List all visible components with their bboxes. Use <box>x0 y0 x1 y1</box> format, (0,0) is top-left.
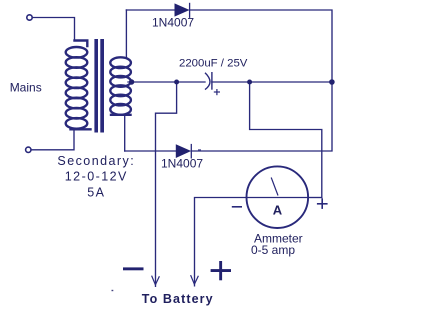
svg-text:Secondary:: Secondary: <box>57 154 135 168</box>
wire top rail to D1 <box>126 9 175 11</box>
transformer T1 core <box>94 39 104 133</box>
symbol battery minus <box>123 267 144 270</box>
transformer T1 secondary winding <box>110 57 131 115</box>
svg-text:0-5 amp: 0-5 amp <box>251 243 295 257</box>
wire ammeter minus lead to battery plus arrow <box>195 198 247 286</box>
transformer T1 primary winding <box>66 41 91 130</box>
label Secondary: 12-0-12V 5A <box>57 154 135 199</box>
wire mains bottom to primary <box>31 131 74 150</box>
symbol battery plus <box>211 261 231 280</box>
wire negative branch from node down and left <box>156 82 177 286</box>
capacitor C1 2200uF/25V <box>205 72 220 95</box>
wire secondary bottom to D2 row <box>124 115 126 151</box>
svg-text:1N4007: 1N4007 <box>152 16 194 30</box>
svg-text:12-0-12V: 12-0-12V <box>65 170 128 184</box>
label ammeter minus polarity <box>232 206 242 208</box>
wire center tap to capacitor <box>128 81 205 83</box>
label ammeter plus polarity <box>317 198 328 209</box>
svg-text:2200uF / 25V: 2200uF / 25V <box>179 57 248 69</box>
node positive branch junction <box>247 80 252 85</box>
mains terminal top <box>27 15 32 20</box>
wire D2 row left segment <box>125 150 177 152</box>
diode D1 1N4007 <box>175 3 190 18</box>
wire capacitor plus plate to node <box>212 81 332 83</box>
node center tap junction <box>129 79 134 84</box>
stray dot mark <box>112 290 114 291</box>
svg-text:A: A <box>273 203 283 218</box>
svg-text:To Battery: To Battery <box>142 292 214 306</box>
svg-text:5A: 5A <box>87 185 105 199</box>
wire positive branch node down right to ammeter plus <box>250 82 322 198</box>
diode D2 1N4007 <box>176 144 201 159</box>
output arrow negative to battery <box>152 276 160 285</box>
svg-text:Mains: Mains <box>10 80 42 94</box>
wire secondary top to top rail <box>125 10 127 58</box>
wire D2 cathode to right rail <box>191 82 332 151</box>
mains terminal bottom <box>26 147 31 152</box>
output arrow positive to battery <box>191 275 199 284</box>
wire mains top to primary <box>32 18 74 41</box>
node negative branch junction <box>174 80 179 85</box>
svg-text:1N4007: 1N4007 <box>161 157 203 171</box>
node right rail junction <box>329 79 335 85</box>
wire ammeter plus lead <box>308 197 322 199</box>
wire D1 cathode to right rail corner <box>190 10 333 82</box>
ammeter M1 <box>246 166 308 228</box>
